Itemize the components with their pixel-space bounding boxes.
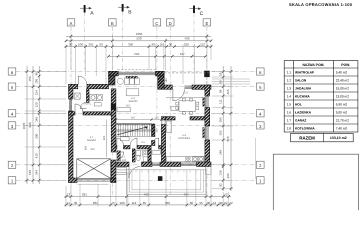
svg-text:A: A	[70, 21, 73, 26]
wall: jadalnia/kuchnia divider (row 3)	[166, 117, 176, 120]
door: main entrance + swing	[129, 167, 141, 179]
svg-text:253: 253	[90, 148, 95, 151]
radiator: kuchnia east	[203, 128, 205, 139]
column: terrace corner column	[158, 176, 163, 181]
wall: lazienka east divider	[148, 149, 151, 162]
garage gate opening	[77, 179, 111, 181]
window: sidelight next to porch door	[184, 86, 192, 88]
svg-text:236: 236	[226, 173, 230, 178]
top dim row 2	[66, 40, 211, 42]
svg-text:WIATROŁAP: WIATROŁAP	[295, 70, 315, 74]
section line C	[190, 6, 204, 71]
svg-text:21,70 m2: 21,70 m2	[336, 118, 350, 122]
SE porch corner step	[206, 167, 212, 175]
garage door X marking	[77, 159, 111, 179]
right dim col outer	[230, 66, 232, 191]
svg-text:7,40 m2: 7,40 m2	[336, 126, 348, 130]
section line A	[80, 5, 94, 70]
hol: wardrobe	[120, 137, 129, 141]
grid box 3 right	[257, 122, 265, 129]
section line B	[118, 4, 132, 70]
svg-text:KUCHNIA: KUCHNIA	[295, 94, 310, 98]
stairs	[116, 124, 152, 136]
svg-text:E: E	[206, 21, 209, 26]
summary row RAZEM	[291, 133, 354, 141]
svg-text:567: 567	[126, 105, 131, 108]
svg-text:5,40 m2: 5,40 m2	[336, 70, 348, 74]
svg-text:12: 12	[67, 193, 71, 197]
svg-text:391: 391	[88, 43, 93, 47]
svg-text:1.6: 1.6	[140, 154, 144, 157]
svg-text:155: 155	[28, 170, 32, 175]
svg-text:100: 100	[119, 201, 124, 205]
top dim row 1 (total 1350)	[66, 35, 211, 37]
svg-text:1070: 1070	[22, 122, 26, 129]
svg-text:90: 90	[152, 43, 156, 47]
svg-text:150: 150	[28, 76, 32, 81]
grid box C	[153, 19, 161, 26]
wiatrolap: closet	[117, 151, 121, 161]
wall: salon top (north, between B and C)	[109, 71, 119, 76]
svg-text:600: 600	[85, 145, 88, 150]
window: jadalnia east window	[206, 96, 208, 108]
sill dash above salon window	[118, 69, 157, 71]
bottom dim row 1	[65, 196, 232, 198]
svg-text:75: 75	[112, 201, 116, 205]
svg-text:13,00 m2: 13,00 m2	[336, 94, 350, 98]
left dim col 2	[32, 66, 34, 184]
wall: hol south / lazienka north	[116, 146, 117, 149]
svg-text:SALON: SALON	[295, 78, 307, 82]
grid box 5 left	[8, 83, 16, 90]
room table	[284, 61, 358, 132]
svg-text:NAZWA POM.: NAZWA POM.	[302, 63, 324, 67]
svg-text:530: 530	[136, 37, 141, 41]
kotlownia: washer/dryer	[90, 94, 103, 106]
grid box 2 left	[8, 161, 16, 168]
svg-text:1.8: 1.8	[287, 126, 292, 130]
svg-text:C: C	[155, 21, 158, 26]
svg-text:85: 85	[143, 201, 147, 205]
svg-text:KUCHNIA: KUCHNIA	[178, 137, 190, 140]
bottom dim row 2	[65, 204, 232, 206]
furniture: jadalnia sideboard	[171, 107, 178, 111]
svg-text:1.3: 1.3	[287, 86, 292, 90]
svg-text:42: 42	[229, 201, 233, 205]
svg-text:100: 100	[78, 43, 83, 47]
svg-text:106: 106	[34, 78, 38, 83]
wall: garage south (row 1)	[69, 178, 78, 183]
svg-text:281: 281	[82, 193, 87, 197]
furniture: salon table/rug	[126, 89, 139, 96]
svg-text:103,10 m2: 103,10 m2	[330, 136, 347, 140]
wall: south main (row 2)	[111, 162, 129, 167]
top extension lines	[70, 34, 72, 70]
door: kotlownia-garage + swing	[75, 104, 83, 112]
wall: kotlownia inner divider	[86, 89, 89, 103]
svg-text:POW.: POW.	[341, 63, 350, 67]
lower empty frame	[273, 154, 358, 211]
door: kotlownia inner + swing	[80, 102, 86, 108]
column: NE porch column (axis E)	[204, 71, 210, 77]
furniture: salon sofa set	[117, 78, 139, 85]
kuchnia door opening jambs	[162, 120, 165, 125]
dashed roof edge over NE porch	[164, 73, 210, 85]
svg-text:HOL: HOL	[295, 102, 302, 106]
door: garage-wiatrolap + swing	[116, 152, 124, 160]
wall: kotlownia/garage divider (row 4)	[69, 112, 76, 115]
svg-text:15,00 m2: 15,00 m2	[336, 86, 350, 90]
svg-text:430: 430	[184, 37, 189, 41]
entrance outside steps	[116, 168, 126, 175]
right outer bracket line	[255, 138, 257, 179]
svg-text:ŁAZIENKA: ŁAZIENKA	[295, 110, 312, 114]
grid box 5 right	[257, 83, 265, 90]
third room: shelf	[152, 151, 161, 155]
left dim col 3 (details)	[38, 66, 40, 184]
svg-text:197: 197	[180, 52, 185, 56]
svg-text:94: 94	[218, 89, 222, 93]
svg-text:186: 186	[218, 117, 222, 122]
svg-text:52: 52	[224, 201, 228, 205]
svg-text:515: 515	[226, 136, 230, 141]
salon interior dim line	[116, 119, 161, 121]
svg-text:90: 90	[74, 201, 78, 205]
svg-text:1.2: 1.2	[287, 78, 292, 82]
svg-text:90: 90	[169, 43, 173, 47]
door: jadalnia porch door + swing	[173, 89, 185, 101]
svg-text:KOTŁ.: KOTŁ.	[84, 103, 92, 106]
svg-text:1.4: 1.4	[287, 94, 292, 98]
garage interior dim line	[106, 120, 108, 158]
svg-text:1.7: 1.7	[287, 118, 292, 122]
svg-text:30: 30	[207, 201, 211, 205]
svg-text:1.6: 1.6	[287, 110, 292, 114]
lazienka: WC, sink, shower	[136, 150, 147, 160]
window: small south window	[152, 163, 160, 165]
wall: NW step (vertical, axis B)	[109, 76, 116, 85]
svg-text:11: 11	[67, 201, 70, 205]
svg-text:344: 344	[34, 170, 38, 175]
svg-text:152: 152	[218, 130, 222, 135]
svg-text:415: 415	[226, 89, 230, 94]
left dim col 1 (total 1070)	[26, 66, 28, 184]
svg-text:GARAŻ: GARAŻ	[87, 138, 96, 142]
wall: hol/kuchnia divider (axis C-D)	[161, 117, 165, 120]
svg-text:22,40 m2: 22,40 m2	[336, 78, 350, 82]
svg-text:1350: 1350	[136, 32, 143, 36]
grid box 3 left	[8, 122, 16, 129]
wall: west (axis A)	[69, 89, 74, 99]
door: kotlownia exterior door + swing	[78, 76, 86, 84]
lazienka: shower tray	[143, 157, 147, 162]
svg-text:GARAŻ: GARAŻ	[295, 118, 306, 122]
furniture: salon cabinet above stairs	[117, 108, 130, 112]
window: kotlownia west window	[69, 99, 71, 111]
svg-text:6,90 m2: 6,90 m2	[336, 102, 348, 106]
svg-text:12: 12	[213, 201, 217, 205]
wall: north wall of kotlownia (row 5)	[69, 84, 78, 89]
terrace nested outlines	[127, 170, 206, 195]
svg-text:95: 95	[199, 201, 203, 205]
stairs direction arrow	[117, 127, 147, 135]
grid box B	[109, 19, 117, 26]
wall: east (axis E)	[205, 85, 210, 96]
svg-text:55: 55	[218, 72, 222, 76]
svg-text:110: 110	[218, 201, 223, 205]
top window dim line	[109, 55, 206, 57]
svg-text:405: 405	[103, 135, 106, 140]
svg-text:86: 86	[190, 201, 194, 205]
svg-text:90: 90	[99, 43, 103, 47]
svg-text:124: 124	[34, 90, 38, 95]
svg-text:390: 390	[34, 133, 38, 138]
svg-text:SKALA OPRACOWANIA 1:100: SKALA OPRACOWANIA 1:100	[289, 2, 353, 7]
svg-text:D: D	[169, 21, 172, 26]
svg-text:1.5: 1.5	[141, 141, 145, 144]
kitchen counter south	[167, 156, 205, 161]
svg-text:112: 112	[200, 43, 205, 47]
svg-text:250: 250	[184, 43, 189, 47]
flue block in axis B wall	[111, 104, 116, 110]
radiator: jadalnia east	[203, 98, 205, 107]
door: hol-third room + swing	[151, 138, 158, 145]
right extension lines	[212, 71, 233, 73]
svg-text:510: 510	[134, 52, 139, 56]
door: hol-wiatrolap + swing	[117, 138, 124, 145]
grid box 6 left	[8, 68, 16, 75]
svg-text:281: 281	[93, 201, 98, 205]
wall: wiatrolap/lazienka divider	[132, 149, 135, 162]
wall: jadalnia north (row 5, east part)	[164, 85, 172, 89]
right porch extension lines	[212, 78, 250, 80]
svg-text:940: 940	[28, 122, 32, 127]
kitchen counter west	[167, 121, 172, 133]
svg-text:82: 82	[218, 183, 222, 187]
grid box 6 right	[257, 68, 265, 75]
grid box D	[166, 19, 174, 26]
svg-text:345: 345	[34, 117, 38, 122]
svg-text:567: 567	[131, 117, 136, 120]
svg-text:350: 350	[128, 43, 133, 47]
jadalnia interior dim line	[166, 97, 205, 99]
radiator: under salon window	[126, 76, 138, 78]
wall: NE step (vertical, axis C)	[158, 76, 165, 90]
top dim row 3 (detail dims)	[65, 46, 213, 48]
svg-text:C: C	[200, 11, 204, 17]
bottom extension lines	[65, 186, 67, 207]
grid box 2 right	[257, 161, 265, 168]
svg-text:B: B	[111, 21, 114, 26]
window: kuchnia south window	[181, 163, 197, 165]
terrace top dashes	[136, 170, 196, 172]
grid box 4 right	[257, 110, 265, 117]
wall: garage east / wiatrolap west (axis B)	[111, 89, 116, 152]
grid box 4 left	[8, 110, 16, 117]
kotlownia: boiler	[75, 93, 81, 99]
svg-text:45: 45	[34, 72, 38, 76]
svg-text:1.1: 1.1	[121, 156, 125, 159]
svg-text:1.1: 1.1	[287, 70, 292, 74]
svg-text:KOTŁOWNIA: KOTŁOWNIA	[295, 126, 315, 130]
svg-text:139: 139	[218, 170, 222, 175]
svg-text:1.5: 1.5	[287, 102, 292, 106]
furniture: jadalnia table and chairs	[176, 98, 199, 114]
grid box 1 right	[257, 177, 265, 184]
svg-text:52: 52	[224, 193, 228, 197]
svg-text:410: 410	[34, 153, 38, 158]
svg-text:111: 111	[218, 99, 222, 104]
right dim col inner	[222, 66, 224, 191]
svg-text:RAZEM: RAZEM	[299, 135, 315, 140]
svg-text:JADALNIA: JADALNIA	[295, 86, 312, 90]
svg-text:248: 248	[218, 150, 222, 155]
grid box 1 left	[8, 177, 16, 184]
svg-text:120: 120	[34, 102, 38, 107]
door: hol-lazienka + swing	[130, 138, 137, 145]
grid box A	[67, 19, 75, 26]
svg-text:SALON: SALON	[129, 100, 138, 103]
svg-text:1.3: 1.3	[184, 92, 188, 95]
grid box E	[203, 19, 211, 26]
svg-text:150: 150	[156, 128, 159, 133]
window: kuchnia east window	[206, 126, 208, 140]
window: salon north window	[118, 72, 155, 75]
svg-text:112: 112	[132, 201, 137, 205]
svg-text:120: 120	[122, 159, 127, 162]
svg-text:180: 180	[165, 78, 168, 83]
driveway edge below garage	[78, 183, 109, 185]
svg-text:120: 120	[154, 117, 159, 120]
svg-text:5,00 m2: 5,00 m2	[336, 110, 348, 114]
wall: hol west / stairs side	[152, 124, 155, 137]
left extension lines	[25, 71, 66, 73]
svg-text:360: 360	[165, 201, 170, 205]
